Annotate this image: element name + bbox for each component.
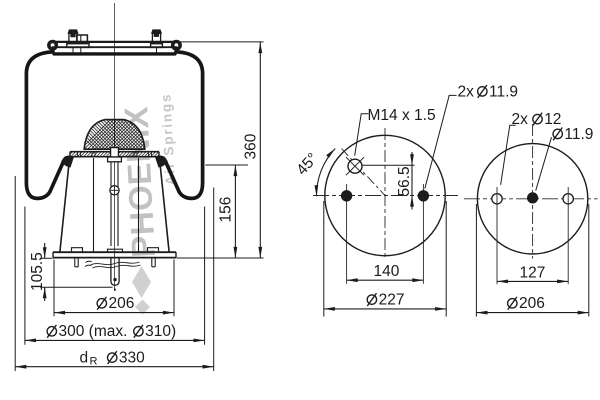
air fitting block [77,35,88,53]
flange hatch [66,150,167,158]
stud hole d12 left [492,187,502,284]
dimension d206 right view [476,204,588,317]
dimension d227 [324,201,446,317]
M14 threaded hole [346,157,364,175]
svg-text:2x: 2x [512,111,529,128]
dimension diameter 206 [54,260,174,317]
svg-text:206: 206 [519,295,545,312]
dimension 140 [347,263,424,280]
svg-text:11.9: 11.9 [489,84,518,101]
watermark PHOENIX logo [117,92,178,314]
break lines on stud [85,261,141,268]
piston bottom plate [53,252,176,257]
bellows-to-piston corner wedge left [61,157,74,168]
svg-text:156: 156 [218,197,235,223]
svg-text:360: 360 [243,133,260,159]
left mounting bolt M12 [67,30,89,53]
dimension diameter 300 max 310 [25,207,205,345]
vertical centreline [532,124,534,259]
stud hole d12 right [563,187,573,284]
reference line from M14 hole [362,164,415,166]
label 2x d12 [512,111,562,128]
flange centre bolt boss [108,148,122,162]
svg-text:227: 227 [379,292,405,309]
top plate [52,42,177,47]
bottom bolt tab right [148,248,159,267]
top plate left rolled edge [49,42,56,49]
dimension dR diameter 330 [15,176,214,371]
piston outer wall left [60,157,70,251]
horizontal centreline [464,198,598,200]
piston internal ribs [94,158,139,252]
45 degree arc with arrows [316,149,335,197]
svg-text:12: 12 [544,111,561,128]
rubber bump stop dome [84,120,145,150]
45 degree axis dash-dot [342,149,386,196]
piston circle d206 [477,144,587,254]
plate circle d227 [325,135,445,255]
svg-text:56.5: 56.5 [396,166,413,196]
extension line 156 level [205,164,248,166]
dome centre seam [114,119,116,149]
rubber bellows outline [26,52,202,199]
extension line piston base level [177,257,264,259]
leader 2x d12 [501,125,516,185]
svg-text:330: 330 [119,350,145,367]
svg-text:11.9: 11.9 [564,126,593,143]
right mounting bolt M12 [151,30,163,53]
leader d11.9 [536,137,552,190]
bellows-to-piston corner wedge right [155,157,168,168]
extension line top plate level [179,41,264,43]
svg-text:2x: 2x [458,84,475,101]
vertical centreline [384,128,386,260]
svg-text:45°: 45° [293,150,321,179]
bottom bolt tab left [72,248,83,267]
svg-text:105.5: 105.5 [29,252,46,291]
dimension 56.5 [396,152,413,210]
hole d11.9 right [418,184,429,284]
top plate right rolled edge [173,42,180,49]
dimension 105.5 [29,243,113,301]
centre stud below piston [108,249,123,290]
vertical centerline [114,3,116,291]
piston outer wall right [159,157,169,251]
svg-text:d: d [80,350,89,367]
horizontal centreline [313,195,458,197]
leader 2x d11.9 [425,95,457,188]
svg-text:310): 310) [145,323,176,340]
label 2x d11.9 [458,84,519,101]
dimension 127 [497,264,568,281]
svg-text:127: 127 [520,264,546,281]
centre hole d11.9 [527,192,538,203]
svg-text:R: R [90,356,98,368]
label d11.9 [553,126,593,143]
svg-text:206: 206 [109,295,135,312]
piston vent hole [110,186,119,195]
dimension 360 [243,42,261,258]
dome crosshatch [60,111,194,159]
svg-text:M14 x 1.5: M14 x 1.5 [368,107,436,124]
dimension 156 [218,165,236,258]
piston top clamping flange [70,152,159,157]
svg-text:140: 140 [374,263,400,280]
svg-text:300 (max.: 300 (max. [59,323,128,340]
leader M14 x 1.5 [355,114,369,156]
hole d11.9 left [341,184,352,284]
